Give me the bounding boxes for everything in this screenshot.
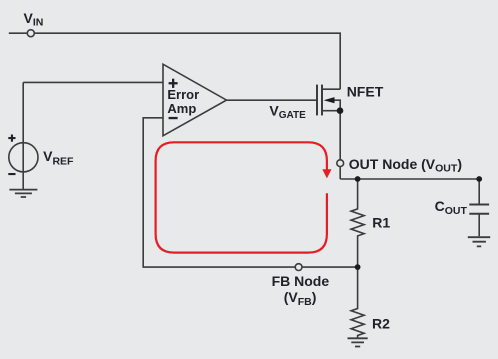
- svg-text:NFET: NFET: [347, 84, 384, 100]
- svg-text:Amp: Amp: [167, 101, 196, 116]
- svg-text:R1: R1: [372, 215, 390, 231]
- svg-text:Error: Error: [167, 87, 199, 102]
- svg-text:FB Node: FB Node: [272, 273, 330, 289]
- svg-text:R2: R2: [372, 315, 390, 331]
